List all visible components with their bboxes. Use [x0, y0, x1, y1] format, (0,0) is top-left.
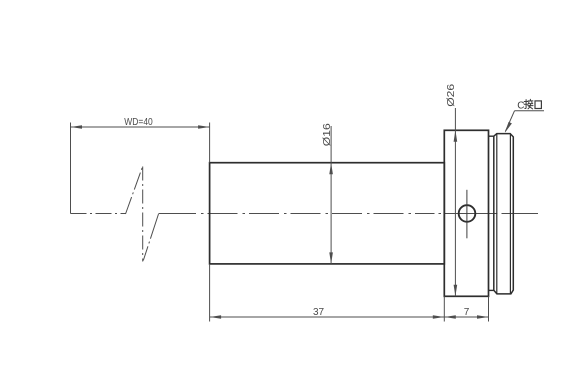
- svg-text:37: 37: [313, 307, 325, 318]
- 37 extension line right: [443, 296, 445, 321]
- break symbol diagonal lower: [143, 214, 158, 261]
- break symbol vertical dash-dot: [142, 167, 144, 262]
- svg-text:C: C: [517, 101, 524, 112]
- svg-text:Ø26: Ø26: [446, 83, 457, 107]
- C-mount ring chamfer tangent lines: [497, 134, 511, 294]
- svg-text:WD=40: WD=40: [124, 117, 153, 128]
- WD=40 extension line right: [209, 123, 211, 163]
- C-mount leader underline: [515, 110, 545, 112]
- centerline left segment: [71, 213, 126, 215]
- 7 dimension line with arrows: [444, 315, 488, 319]
- neck step lines: [489, 136, 494, 290]
- set screw hole circle: [459, 205, 476, 222]
- WD=40 dimension line with arrows: [71, 125, 210, 129]
- barrel outline (phi16 cylinder): [210, 163, 445, 264]
- C-mount label glyph jie (接) drawn as strokes: [524, 99, 533, 109]
- svg-text:Ø16: Ø16: [322, 123, 333, 147]
- phi16 dimension line with arrows: [329, 126, 333, 264]
- phi26 dimension line with arrows: [454, 108, 458, 296]
- flange outline (phi26): [444, 130, 488, 296]
- WD=40 extension line left: [70, 123, 72, 214]
- 7 extension line right: [488, 296, 490, 321]
- 37 dimension line with arrows: [210, 315, 445, 319]
- centerline right segment: [159, 213, 539, 215]
- svg-text:7: 7: [464, 307, 470, 318]
- break symbol diagonal upper: [126, 167, 143, 215]
- C-mount leader line with arrow: [505, 111, 515, 133]
- set screw hole vertical crosshair: [466, 190, 468, 239]
- C-mount ring outline: [494, 134, 514, 294]
- 37 extension line left: [209, 264, 211, 322]
- C-mount label glyph kou (口) drawn as strokes: [535, 101, 541, 109]
